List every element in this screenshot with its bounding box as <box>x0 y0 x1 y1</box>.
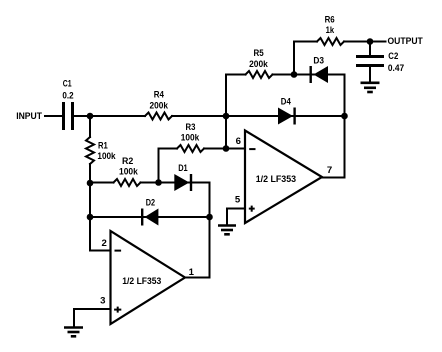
svg-text:200k: 200k <box>150 100 169 111</box>
svg-text:3: 3 <box>100 296 105 307</box>
svg-text:R6: R6 <box>325 14 335 25</box>
svg-text:1k: 1k <box>326 25 335 36</box>
svg-text:D1: D1 <box>178 163 188 174</box>
svg-text:D3: D3 <box>313 56 324 67</box>
svg-text:5: 5 <box>235 194 241 205</box>
svg-text:R5: R5 <box>254 48 265 59</box>
svg-text:D4: D4 <box>281 96 292 107</box>
svg-text:R1: R1 <box>98 141 108 152</box>
svg-text:R4: R4 <box>154 90 165 101</box>
svg-text:0.47: 0.47 <box>388 63 404 74</box>
svg-text:1/2 LF353: 1/2 LF353 <box>256 174 296 185</box>
svg-text:C2: C2 <box>388 51 398 62</box>
svg-text:100k: 100k <box>119 166 138 177</box>
svg-text:7: 7 <box>327 165 332 176</box>
svg-text:C1: C1 <box>63 78 72 89</box>
svg-text:0.2: 0.2 <box>62 91 73 102</box>
svg-text:1: 1 <box>189 267 195 278</box>
svg-text:200k: 200k <box>249 59 268 70</box>
svg-text:2: 2 <box>102 238 107 249</box>
svg-text:1/2 LF353: 1/2 LF353 <box>122 276 161 287</box>
svg-text:100k: 100k <box>97 151 116 162</box>
svg-text:6: 6 <box>236 136 241 147</box>
svg-text:OUTPUT: OUTPUT <box>388 36 423 47</box>
svg-text:R3: R3 <box>186 122 196 133</box>
svg-text:D2: D2 <box>146 197 155 208</box>
svg-text:INPUT: INPUT <box>16 111 42 122</box>
svg-text:100k: 100k <box>181 133 200 144</box>
